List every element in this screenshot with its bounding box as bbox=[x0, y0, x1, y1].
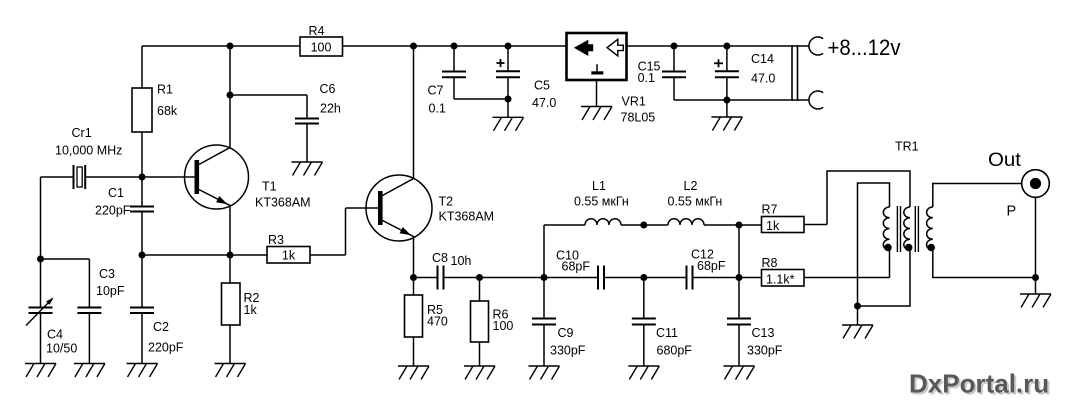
svg-text:1.1k*: 1.1k* bbox=[766, 273, 795, 287]
svg-text:47.0: 47.0 bbox=[532, 96, 556, 110]
svg-text:R7: R7 bbox=[762, 203, 778, 217]
svg-text:22h: 22h bbox=[320, 102, 341, 116]
svg-text:L2: L2 bbox=[684, 179, 698, 193]
svg-text:KT368AM: KT368AM bbox=[255, 196, 311, 210]
svg-text:0.1: 0.1 bbox=[638, 71, 655, 85]
svg-text:R1: R1 bbox=[157, 83, 173, 97]
svg-text:680pF: 680pF bbox=[657, 344, 693, 358]
svg-text:0.1: 0.1 bbox=[429, 102, 446, 116]
svg-text:330pF: 330pF bbox=[747, 344, 783, 358]
svg-text:Cr1: Cr1 bbox=[72, 126, 92, 140]
svg-text:0.55 мкГн: 0.55 мкГн bbox=[668, 195, 723, 209]
svg-text:10/50: 10/50 bbox=[46, 342, 77, 356]
svg-text:68pF: 68pF bbox=[697, 259, 726, 273]
svg-text:R4: R4 bbox=[309, 24, 325, 38]
svg-text:1k: 1k bbox=[244, 303, 258, 317]
svg-text:10h: 10h bbox=[451, 254, 472, 268]
svg-text:C13: C13 bbox=[752, 326, 775, 340]
svg-text:Out: Out bbox=[988, 149, 1022, 171]
svg-text:330pF: 330pF bbox=[550, 344, 586, 358]
svg-text:68pF: 68pF bbox=[562, 260, 591, 274]
svg-text:C1: C1 bbox=[108, 186, 124, 200]
svg-text:C6: C6 bbox=[320, 82, 336, 96]
svg-text:C7: C7 bbox=[428, 84, 444, 98]
svg-text:0.55 мкГн: 0.55 мкГн bbox=[574, 195, 629, 209]
svg-text:R8: R8 bbox=[762, 256, 778, 270]
svg-text:1k: 1k bbox=[282, 249, 296, 263]
svg-text:C3: C3 bbox=[99, 267, 115, 281]
svg-text:10,000 MHz: 10,000 MHz bbox=[55, 144, 122, 158]
svg-text:10pF: 10pF bbox=[96, 284, 125, 298]
svg-text:DxPortal.ru: DxPortal.ru bbox=[909, 369, 1049, 399]
svg-text:+8...12v: +8...12v bbox=[828, 35, 902, 60]
svg-text:C14: C14 bbox=[751, 52, 774, 66]
svg-text:68k: 68k bbox=[157, 104, 178, 118]
svg-text:C9: C9 bbox=[558, 326, 574, 340]
svg-text:VR1: VR1 bbox=[622, 95, 646, 109]
svg-text:C4: C4 bbox=[47, 328, 63, 342]
svg-text:100: 100 bbox=[493, 319, 514, 333]
svg-text:100: 100 bbox=[311, 41, 332, 55]
svg-text:C8: C8 bbox=[432, 251, 448, 265]
svg-text:47.0: 47.0 bbox=[751, 72, 775, 86]
svg-text:C5: C5 bbox=[534, 79, 550, 93]
svg-text:KT368AM: KT368AM bbox=[439, 210, 495, 224]
svg-text:78L05: 78L05 bbox=[621, 111, 656, 125]
svg-text:220pF: 220pF bbox=[148, 341, 184, 355]
svg-text:T2: T2 bbox=[439, 195, 454, 209]
svg-text:L1: L1 bbox=[592, 179, 606, 193]
svg-text:T1: T1 bbox=[262, 180, 277, 194]
svg-text:C2: C2 bbox=[153, 320, 169, 334]
svg-text:C11: C11 bbox=[656, 326, 678, 340]
svg-text:220pF: 220pF bbox=[95, 204, 131, 218]
svg-text:TR1: TR1 bbox=[895, 140, 919, 154]
svg-text:470: 470 bbox=[427, 315, 448, 329]
svg-text:R3: R3 bbox=[268, 233, 284, 247]
svg-text:1k: 1k bbox=[766, 219, 780, 233]
svg-text:P: P bbox=[1007, 204, 1017, 220]
